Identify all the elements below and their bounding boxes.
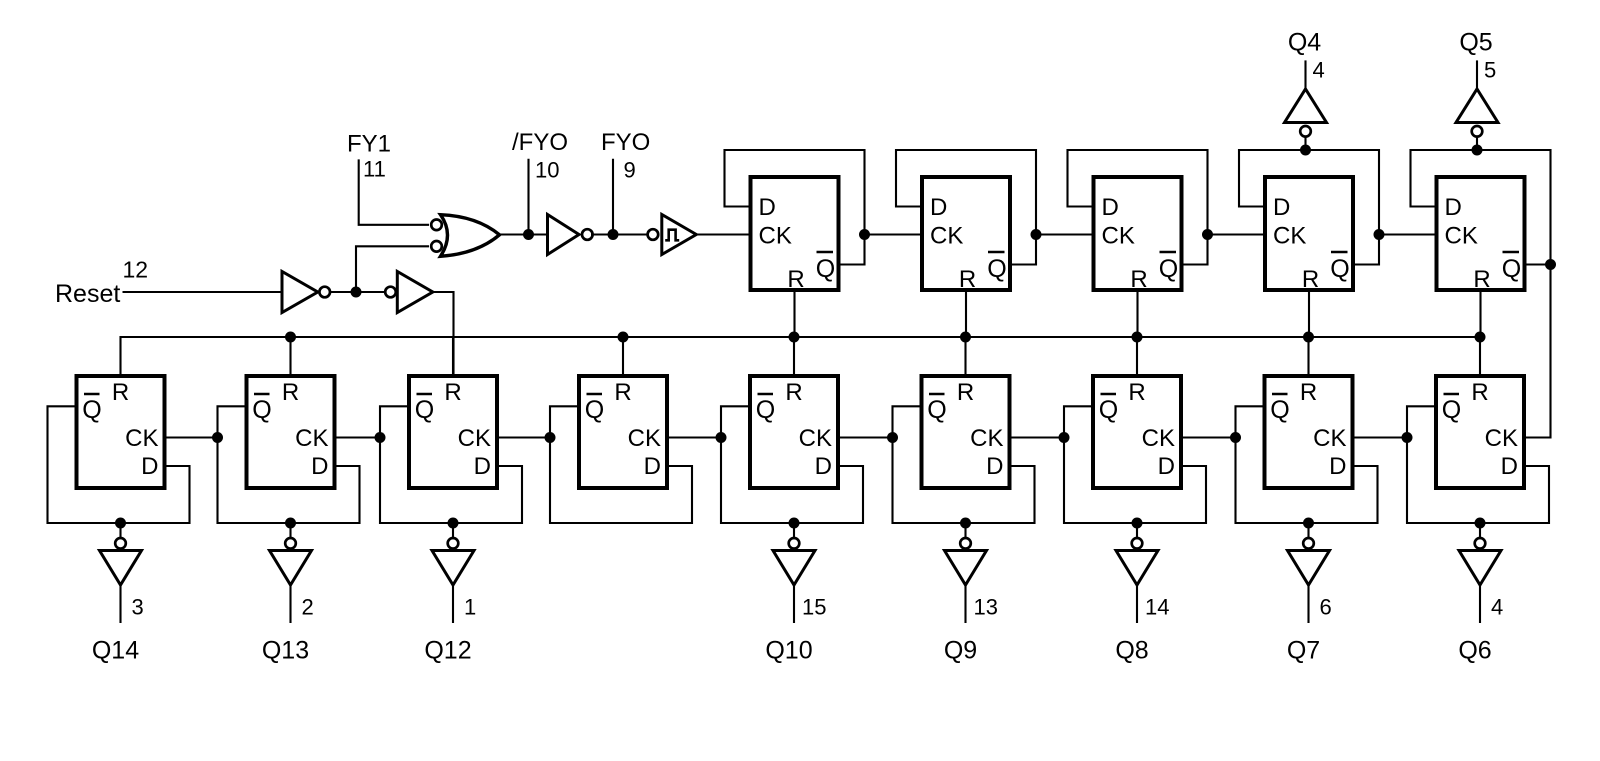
wire FF5 feedback Qbar to D loop: [1411, 150, 1551, 265]
wire FF3 feedback Qbar to D loop: [1068, 150, 1208, 265]
svg-text:Q10: Q10: [765, 637, 812, 665]
D flip-flop Q11 (bottom row): [579, 376, 667, 488]
svg-text:10: 10: [535, 158, 559, 183]
pin 1 lead: [452, 585, 454, 623]
D flip-flop Q12 (bottom row): [409, 376, 497, 488]
Q6 buffer input bubble: [1475, 538, 1486, 549]
junction node FYO: [608, 229, 619, 240]
pin 15 lead: [793, 585, 795, 623]
svg-text:Q4: Q4: [1288, 29, 1321, 57]
svg-text:2: 2: [302, 595, 314, 620]
FF3 Qbar overline: [1160, 251, 1177, 254]
wire FF5 R to reset bus: [1479, 290, 1481, 337]
svg-text:CK: CK: [1142, 425, 1175, 452]
wire FF2 feedback Qbar to D loop: [896, 150, 1036, 265]
FF2 Qbar overline: [988, 251, 1005, 254]
svg-text:Q: Q: [987, 255, 1006, 283]
D flip-flop FF3 (top row): [1094, 177, 1182, 290]
svg-text:6: 6: [1320, 595, 1332, 620]
FF5 Qbar overline: [1503, 251, 1520, 254]
wire Q13 R to reset bus: [289, 337, 291, 376]
svg-text:D: D: [930, 194, 947, 221]
D flip-flop Q14 (bottom row): [77, 376, 165, 488]
wire Q12 feedback Qbar to D loop: [380, 406, 522, 523]
output buffer Q13: [270, 551, 312, 586]
junction Q7 Qbar buffer tap: [1303, 518, 1314, 529]
wire Q7 R to reset bus: [1307, 337, 1309, 376]
svg-text:Q: Q: [1502, 255, 1521, 283]
wire U2 output to node FYO: [591, 233, 613, 235]
D flip-flop Q10 (bottom row): [750, 376, 838, 488]
buffer U2: [548, 215, 580, 255]
pin 9 stub FYO: [612, 159, 614, 235]
svg-text:Q: Q: [585, 396, 604, 424]
wire Q13 CK from next stage: [335, 436, 381, 438]
U1 input B bubble: [431, 241, 442, 252]
svg-text:15: 15: [802, 595, 826, 620]
svg-text:14: 14: [1145, 595, 1169, 620]
wire Q6 tap to buffer bubble: [1479, 523, 1481, 539]
svg-text:Q: Q: [252, 396, 271, 424]
Q12 buffer input bubble: [448, 538, 459, 549]
inverter U4 output bubble: [319, 287, 330, 298]
junction Q10 Qbar buffer tap: [789, 518, 800, 529]
wire Q12 tap to buffer bubble: [452, 523, 454, 539]
pin 3 lead: [119, 585, 121, 623]
svg-text:D: D: [141, 453, 158, 480]
svg-text:Q: Q: [816, 255, 835, 283]
svg-text:12: 12: [123, 257, 149, 283]
Q13 Qbar overline: [254, 393, 270, 396]
wire Q9 CK from next stage: [1010, 436, 1065, 438]
Q8 buffer input bubble: [1132, 538, 1143, 549]
D flip-flop Q6 (bottom row): [1436, 376, 1524, 488]
svg-text:D: D: [644, 453, 661, 480]
wire Q11 CK from next stage: [667, 436, 721, 438]
FF1 Qbar overline: [817, 251, 834, 254]
output buffer Q7: [1288, 551, 1330, 586]
wire Q10 feedback Qbar to D loop: [721, 406, 863, 523]
wire Q10 R to reset bus: [793, 337, 795, 376]
svg-text:R: R: [1471, 379, 1488, 406]
buffer U5 input bubble: [385, 287, 396, 298]
junction reset bus at Q9 R: [960, 332, 971, 343]
svg-text:D: D: [1102, 194, 1119, 221]
svg-text:Q: Q: [82, 396, 101, 424]
svg-text:FYO: FYO: [601, 129, 650, 156]
svg-text:CK: CK: [759, 223, 792, 250]
junction FF1 Qbar node: [859, 229, 870, 240]
Q9 Qbar overline: [929, 393, 945, 396]
junction reset bus at Q11 R: [618, 332, 629, 343]
Q14 buffer input bubble: [115, 538, 126, 549]
Q9 buffer input bubble: [960, 538, 971, 549]
wire FF3 R to reset bus: [1136, 290, 1138, 337]
svg-text:D: D: [1445, 194, 1462, 221]
svg-text:Q8: Q8: [1115, 637, 1148, 665]
svg-text:CK: CK: [1102, 223, 1135, 250]
svg-text:D: D: [759, 194, 776, 221]
wire FF4 Qbar to FF5 CK: [1379, 233, 1437, 235]
svg-text:CK: CK: [125, 425, 158, 452]
junction reset bus at Q8 R: [1132, 332, 1143, 343]
svg-text:R: R: [614, 379, 631, 406]
wire Q11 R to reset bus: [622, 337, 624, 376]
output buffer Q9: [945, 551, 987, 586]
junction reset bus at Q6 R: [1475, 332, 1486, 343]
junction Q11 Qbar node: [545, 432, 556, 443]
output buffer Q12: [432, 551, 474, 586]
svg-text:CK: CK: [295, 425, 328, 452]
junction Q12 Qbar node: [375, 432, 386, 443]
junction Q4 tap on feedback loop: [1300, 145, 1311, 156]
junction reset bus at Q13 R: [285, 332, 296, 343]
svg-text:R: R: [1128, 379, 1145, 406]
buffer U5: [397, 272, 433, 313]
svg-text:D: D: [986, 453, 1003, 480]
svg-text:Q: Q: [1330, 255, 1349, 283]
FF4 Qbar overline: [1331, 251, 1348, 254]
output buffer Q10: [773, 551, 815, 586]
wire FF3 Qbar to FF4 CK: [1208, 233, 1266, 235]
wire U4 output to node RN: [330, 291, 356, 293]
Q7 buffer input bubble: [1303, 538, 1314, 549]
wire Q13 feedback Qbar to D loop: [218, 406, 360, 523]
junction Q5 tap on feedback loop: [1472, 145, 1483, 156]
pin 4 lead: [1479, 585, 1481, 623]
wire Q12 CK from next stage: [497, 436, 550, 438]
svg-text:D: D: [1329, 453, 1346, 480]
svg-text:Q: Q: [1159, 255, 1178, 283]
wire FF1 feedback Qbar to D loop: [725, 150, 865, 265]
wire Q14 tap to buffer bubble: [119, 523, 121, 539]
svg-text:D: D: [1501, 453, 1518, 480]
D flip-flop FF5 (top row): [1437, 177, 1525, 290]
svg-text:D: D: [311, 453, 328, 480]
wire Q7 feedback Qbar to D loop: [1236, 406, 1378, 523]
D flip-flop FF2 (top row): [922, 177, 1010, 290]
junction Q7 Qbar node: [1230, 432, 1241, 443]
output buffer Q8: [1116, 551, 1158, 586]
svg-text:CK: CK: [1485, 425, 1518, 452]
wire Q9 R to reset bus: [964, 337, 966, 376]
svg-text:Q5: Q5: [1459, 29, 1492, 57]
Q12 Qbar overline: [417, 393, 433, 396]
junction Q14 Qbar buffer tap: [115, 518, 126, 529]
wire Q5 buffer bubble to loop: [1476, 136, 1478, 150]
wire Q8 feedback Qbar to D loop: [1064, 406, 1206, 523]
inverter U4: [282, 272, 318, 313]
svg-text:R: R: [785, 379, 802, 406]
wire Q10 CK from next stage: [838, 436, 893, 438]
wire Q11 feedback Qbar to D loop: [550, 406, 692, 523]
wire Q10 tap to buffer bubble: [793, 523, 795, 539]
wire FF1 R to reset bus: [793, 290, 795, 337]
svg-text:CK: CK: [1273, 223, 1306, 250]
svg-text:R: R: [957, 379, 974, 406]
Q10 Qbar overline: [758, 393, 774, 396]
Q4 buffer output bubble: [1300, 126, 1311, 137]
wire Q7 CK from next stage: [1353, 436, 1408, 438]
wire FF4 feedback Qbar to D loop: [1239, 150, 1379, 265]
junction FF3 Qbar node: [1202, 229, 1213, 240]
junction FF2 Qbar node: [1031, 229, 1042, 240]
wire Q14 CK from next stage: [165, 436, 218, 438]
wire FF2 Qbar to FF3 CK: [1036, 233, 1094, 235]
svg-text:R: R: [1130, 266, 1147, 293]
svg-text:4: 4: [1491, 595, 1503, 620]
svg-text:9: 9: [624, 158, 636, 183]
wire Reset to U4 inverter input: [123, 291, 283, 293]
wire Q14 feedback Qbar to D loop: [48, 406, 190, 523]
svg-text:Q: Q: [1099, 396, 1118, 424]
D flip-flop Q7 (bottom row): [1265, 376, 1353, 488]
svg-text:R: R: [959, 266, 976, 293]
svg-text:D: D: [815, 453, 832, 480]
svg-text:Q6: Q6: [1458, 637, 1491, 665]
output buffer Q14: [100, 551, 142, 586]
svg-text:FY1: FY1: [347, 131, 391, 158]
svg-text:D: D: [1273, 194, 1290, 221]
svg-text:D: D: [1158, 453, 1175, 480]
wire U1 output to node /FYO: [499, 233, 529, 235]
junction node RN: [351, 287, 362, 298]
svg-text:1: 1: [464, 595, 476, 620]
wire Q8 R to reset bus: [1136, 337, 1138, 376]
svg-text:R: R: [282, 379, 299, 406]
junction reset bus at Q10 R: [789, 332, 800, 343]
junction Q12 Qbar buffer tap: [448, 518, 459, 529]
Q13 buffer input bubble: [285, 538, 296, 549]
junction Q6 Qbar node: [1402, 432, 1413, 443]
output buffer Q4: [1285, 89, 1327, 123]
svg-text:Q7: Q7: [1287, 637, 1320, 665]
svg-text:R: R: [1302, 266, 1319, 293]
junction Q8 Qbar buffer tap: [1132, 518, 1143, 529]
wire U5 output down to FF Q12 R (crosses reset bus, no dot): [433, 292, 454, 374]
junction Q9 Qbar node: [887, 432, 898, 443]
svg-text:Q: Q: [1442, 396, 1461, 424]
wire node RN up to U1 input B: [356, 246, 429, 292]
Q10 buffer input bubble: [789, 538, 800, 549]
Q6 Qbar overline: [1444, 393, 1460, 396]
junction Q9 Qbar buffer tap: [960, 518, 971, 529]
buffer U2 output bubble: [582, 229, 593, 240]
wire Q4 buffer bubble to loop: [1304, 136, 1306, 150]
svg-text:Q: Q: [756, 396, 775, 424]
D flip-flop FF4 (top row): [1265, 177, 1353, 290]
svg-text:Q13: Q13: [262, 637, 309, 665]
junction FF5 Qbar node: [1545, 259, 1556, 270]
pin 13 lead: [964, 585, 966, 623]
wire Q8 tap to buffer bubble: [1136, 523, 1138, 539]
Q14 Qbar overline: [84, 393, 100, 396]
svg-text:CK: CK: [970, 425, 1003, 452]
svg-text:R: R: [1473, 266, 1490, 293]
wire Q9 tap to buffer bubble: [964, 523, 966, 539]
svg-text:CK: CK: [1313, 425, 1346, 452]
svg-text:R: R: [1300, 379, 1317, 406]
junction Q8 Qbar node: [1059, 432, 1070, 443]
wire FY1 pin 11 to U1 input A: [359, 159, 429, 224]
junction Q13 Qbar node: [212, 432, 223, 443]
reset bus net: [121, 337, 1481, 374]
wire Q6 R to reset bus: [1479, 337, 1481, 376]
svg-text:/FYO: /FYO: [512, 129, 568, 156]
svg-text:3: 3: [132, 595, 144, 620]
output buffer Q6: [1459, 551, 1501, 586]
svg-text:CK: CK: [1445, 223, 1478, 250]
junction FF4 Qbar node: [1374, 229, 1385, 240]
wire FF2 R to reset bus: [965, 290, 967, 337]
junction Q10 Qbar node: [716, 432, 727, 443]
pin 14 lead: [1136, 585, 1138, 623]
wire Q8 CK from next stage: [1181, 436, 1236, 438]
svg-text:R: R: [112, 379, 129, 406]
svg-text:D: D: [474, 453, 491, 480]
junction Q6 Qbar buffer tap: [1475, 518, 1486, 529]
pin 2 lead: [289, 585, 291, 623]
svg-text:5: 5: [1484, 58, 1496, 83]
svg-text:11: 11: [363, 157, 386, 182]
wire Q6 feedback Qbar to D loop: [1407, 406, 1549, 523]
D flip-flop Q9 (bottom row): [922, 376, 1010, 488]
wire FF4 R to reset bus: [1308, 290, 1310, 337]
wire Q12 R to reset bus: [452, 337, 454, 376]
svg-text:R: R: [444, 379, 461, 406]
Schmitt U3 input bubble: [648, 229, 659, 240]
Q8 Qbar overline: [1101, 393, 1117, 396]
Q7 Qbar overline: [1272, 393, 1288, 396]
svg-text:Q12: Q12: [424, 637, 471, 665]
svg-text:CK: CK: [628, 425, 661, 452]
output buffer Q5: [1456, 89, 1498, 123]
svg-text:CK: CK: [458, 425, 491, 452]
D flip-flop Q8 (bottom row): [1093, 376, 1181, 488]
U1 input A bubble: [431, 220, 442, 231]
junction Q13 Qbar buffer tap: [285, 518, 296, 529]
pin 4 lead: [1304, 60, 1306, 89]
pin 6 lead: [1307, 585, 1309, 623]
junction node /FYO: [523, 229, 534, 240]
wire FF5 Qbar down to FF Q6 CK: [1524, 265, 1551, 438]
pin 5 lead: [1476, 60, 1478, 89]
svg-text:Q: Q: [415, 396, 434, 424]
wire node /FYO to U2 input: [529, 233, 548, 235]
OR gate U1: [441, 215, 500, 257]
svg-text:4: 4: [1313, 58, 1325, 83]
Q5 buffer output bubble: [1472, 126, 1483, 137]
Q11 Qbar overline: [587, 393, 603, 396]
wire FF1 Qbar to FF2 CK: [865, 233, 923, 235]
svg-text:R: R: [787, 266, 804, 293]
wire node RN to U5 input: [356, 291, 386, 293]
svg-text:CK: CK: [799, 425, 832, 452]
wire Q13 tap to buffer bubble: [289, 523, 291, 539]
U3 hysteresis symbol: [665, 230, 679, 241]
D flip-flop Q13 (bottom row): [247, 376, 335, 488]
D flip-flop FF1 (top row): [751, 177, 839, 290]
wire node FYO to U3 input: [613, 233, 648, 235]
svg-text:13: 13: [974, 595, 998, 620]
pin 10 stub /FYO: [527, 159, 529, 235]
svg-text:CK: CK: [930, 223, 963, 250]
wire Q9 feedback Qbar to D loop: [893, 406, 1035, 523]
wire Q7 tap to buffer bubble: [1307, 523, 1309, 539]
svg-text:Q: Q: [927, 396, 946, 424]
svg-text:Reset: Reset: [55, 280, 120, 308]
wire U3 output to FF1 CK: [696, 233, 750, 235]
svg-text:Q9: Q9: [944, 637, 977, 665]
junction reset bus at Q7 R: [1303, 332, 1314, 343]
svg-text:Q14: Q14: [92, 637, 139, 665]
Schmitt trigger U3: [662, 215, 697, 255]
svg-text:Q: Q: [1270, 396, 1289, 424]
